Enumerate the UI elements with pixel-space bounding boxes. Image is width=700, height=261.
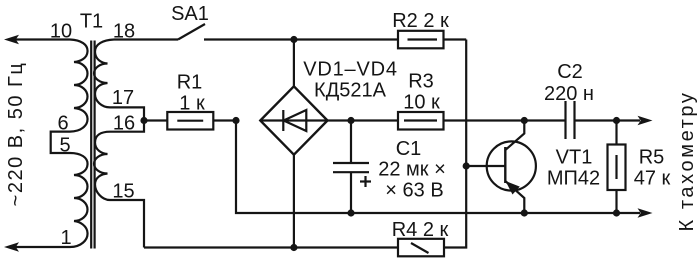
svg-text:R5: R5 xyxy=(639,147,665,169)
svg-text:17: 17 xyxy=(112,87,134,109)
svg-text:VD1–VD4: VD1–VD4 xyxy=(303,58,398,80)
svg-text:SA1: SA1 xyxy=(171,3,209,25)
svg-text:К тахометру: К тахометру xyxy=(676,90,698,231)
svg-text:VT1: VT1 xyxy=(556,147,593,169)
svg-text:МП42: МП42 xyxy=(547,168,600,190)
svg-text:C1: C1 xyxy=(396,138,422,160)
svg-text:КД521А: КД521А xyxy=(314,80,387,102)
svg-text:R2 2 к: R2 2 к xyxy=(392,10,449,32)
svg-text:47 к: 47 к xyxy=(634,168,671,190)
svg-text:18: 18 xyxy=(113,21,135,43)
svg-text:R4 2 к: R4 2 к xyxy=(392,219,449,241)
svg-text:~220 В, 50 Гц: ~220 В, 50 Гц xyxy=(5,62,27,207)
svg-text:5: 5 xyxy=(59,135,70,157)
svg-text:6: 6 xyxy=(57,113,68,135)
svg-text:× 63 В: × 63 В xyxy=(385,180,443,202)
svg-text:R3: R3 xyxy=(408,71,434,93)
svg-text:10: 10 xyxy=(50,21,72,43)
svg-text:15: 15 xyxy=(112,181,134,203)
svg-text:22 мк ×: 22 мк × xyxy=(378,159,446,181)
svg-text:10 к: 10 к xyxy=(403,92,440,114)
svg-text:R1: R1 xyxy=(177,72,203,94)
svg-text:1 к: 1 к xyxy=(179,93,205,115)
svg-text:T1: T1 xyxy=(80,11,103,33)
svg-text:1: 1 xyxy=(60,227,71,249)
svg-text:220 н: 220 н xyxy=(544,83,594,105)
svg-text:16: 16 xyxy=(113,113,135,135)
svg-text:C2: C2 xyxy=(557,61,583,83)
